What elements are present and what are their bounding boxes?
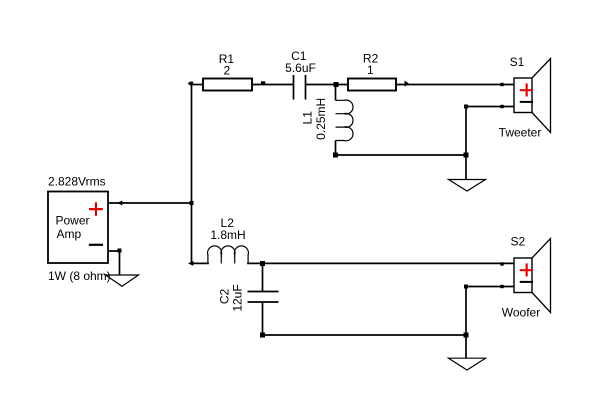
arrow on plus wire (pointing left) — [117, 201, 122, 206]
node S1 minus corner — [464, 105, 468, 109]
svg-text:2.828Vrms: 2.828Vrms — [48, 175, 106, 189]
resistor R1 — [203, 52, 252, 91]
svg-text:Power: Power — [55, 214, 89, 228]
wire amp plus output — [108, 202, 192, 204]
wire S2 minus down to ground — [465, 287, 467, 359]
junction node top of C2 — [260, 261, 265, 266]
junction node woofer ground line — [464, 333, 469, 338]
capacitor C1 — [285, 49, 316, 99]
svg-text:S1: S1 — [510, 55, 525, 69]
node at S2 plus terminal — [500, 262, 503, 265]
node bus top corner — [188, 82, 194, 86]
speaker S1 — [499, 55, 551, 140]
wire R2 to S1 — [396, 84, 514, 86]
svg-text:5.6uF: 5.6uF — [285, 61, 316, 75]
wire R1 to C1 — [252, 84, 294, 86]
svg-text:2: 2 — [223, 64, 230, 78]
power amp plus terminal marker (red) — [89, 202, 103, 216]
svg-text:0.25mH: 0.25mH — [314, 98, 328, 140]
svg-text:Tweeter: Tweeter — [499, 126, 542, 140]
wire amp minus output — [108, 251, 120, 275]
ground (tweeter) — [449, 180, 486, 192]
speaker S2 — [502, 235, 551, 320]
wire bus to R1 — [192, 84, 204, 86]
node at S1 minus terminal — [500, 105, 503, 108]
ground (power amp) — [106, 275, 139, 286]
wire S1 minus down to ground — [465, 107, 467, 180]
junction node top of L1 — [334, 82, 339, 87]
svg-text:Amp: Amp — [56, 227, 81, 241]
capacitor C2 — [217, 264, 278, 336]
resistor R2 — [348, 52, 396, 91]
svg-text:1.8mH: 1.8mH — [210, 228, 245, 242]
arrow diamond at L2 corner — [188, 261, 193, 266]
wire vertical bus — [191, 84, 193, 264]
node corner minus wire — [118, 249, 122, 253]
wire S1 minus terminal — [466, 106, 514, 108]
svg-text:1: 1 — [367, 63, 374, 77]
wire bus corner to L2 — [192, 262, 209, 264]
svg-text:Woofer: Woofer — [502, 305, 540, 319]
junction node at bus and plus wire — [190, 201, 194, 205]
wire L2 to S2 — [247, 262, 514, 264]
svg-text:12uF: 12uF — [231, 284, 245, 311]
wire L1 bottom to tweeter ground line — [336, 154, 467, 156]
svg-text:L1: L1 — [301, 111, 315, 125]
node bottom of L1 — [333, 153, 338, 158]
power amp minus terminal marker — [89, 244, 103, 246]
arrow on wire after R2 (pointing right) — [405, 81, 410, 87]
svg-text:C2: C2 — [217, 289, 231, 305]
wire C1 to R2 — [306, 84, 349, 86]
node between R1 and C1 — [261, 81, 265, 84]
node S2 minus corner — [464, 285, 468, 289]
svg-text:1W (8 ohm): 1W (8 ohm) — [48, 269, 111, 283]
node at S2 minus terminal — [500, 285, 503, 288]
inductor L1 — [301, 85, 354, 156]
power amp U1 box — [48, 192, 108, 264]
wire S2 minus terminal — [466, 286, 514, 288]
node at S1 plus terminal — [500, 83, 503, 86]
ground (woofer) — [449, 358, 486, 370]
node bottom of C2 — [260, 333, 265, 338]
inductor L2 — [208, 216, 249, 264]
svg-text:S2: S2 — [510, 235, 525, 249]
wire C2 bottom to woofer ground line — [263, 334, 466, 336]
junction node tweeter ground line — [464, 153, 469, 158]
